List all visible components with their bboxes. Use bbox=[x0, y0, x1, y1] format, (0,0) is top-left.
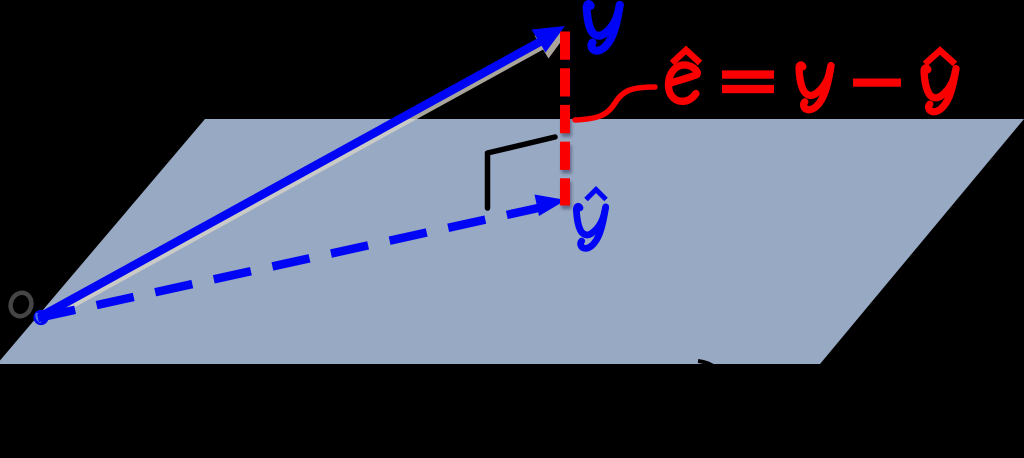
label o (origin, dark gray) bbox=[7, 290, 34, 319]
cut-off curve at bottom edge bbox=[698, 361, 716, 368]
label y-hat (blue) bbox=[576, 190, 606, 249]
y glyph bbox=[799, 65, 831, 110]
minus sign bbox=[853, 79, 901, 87]
e glyph bbox=[668, 65, 697, 101]
leader squiggle from e-hat to equation bbox=[575, 87, 655, 120]
plane (subspace) bbox=[0, 119, 1024, 364]
vector y-hat (dashed blue arrow from o to y-hat) bbox=[38, 195, 566, 319]
error vector e-hat (red dashed vertical line) bbox=[560, 32, 570, 206]
shadow of vector y bbox=[58, 32, 568, 313]
y-hat glyph bbox=[924, 68, 956, 112]
equation e-hat = y - y-hat (red) bbox=[668, 50, 956, 112]
shadow of error vector e-hat on plane bbox=[562, 35, 572, 209]
label y (blue) bbox=[587, 4, 620, 51]
right-angle marker bbox=[488, 137, 556, 208]
equals sign bbox=[722, 70, 774, 78]
vector y (solid blue arrow from o to y) bbox=[38, 26, 565, 318]
hat of y-hat bbox=[925, 51, 955, 65]
hat of e bbox=[672, 50, 700, 63]
origin blob (3D cap of vectors at o) bbox=[33, 310, 48, 325]
